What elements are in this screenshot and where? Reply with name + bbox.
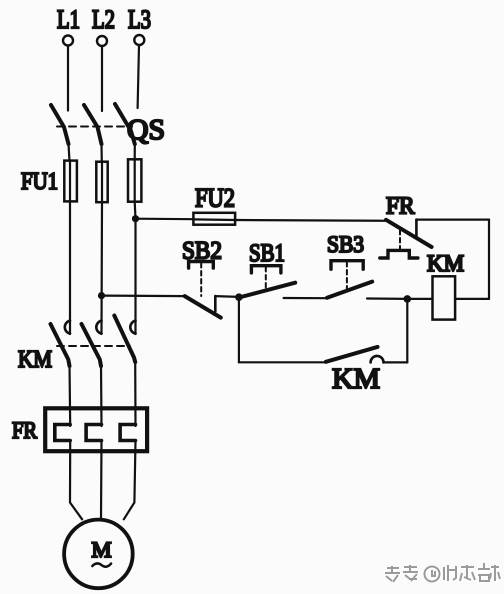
node A junction dot (L3 tap) bbox=[132, 215, 139, 222]
pushbutton SB1 cap bbox=[251, 266, 281, 273]
svg-text:KM: KM bbox=[427, 251, 464, 276]
wire QS1 to FU1a bbox=[69, 144, 70, 161]
switch QS pole 3 blade bbox=[115, 104, 135, 144]
wire FU1c to node A bbox=[134, 202, 137, 219]
wire FU1b to KM contact 2 bbox=[100, 202, 103, 334]
svg-text:KM: KM bbox=[332, 363, 380, 395]
motor M circle bbox=[64, 520, 133, 589]
svg-text:FR: FR bbox=[12, 418, 38, 443]
svg-text:SB1: SB1 bbox=[249, 240, 285, 267]
wire SB1 to SB3 bbox=[284, 297, 328, 299]
wire KM3 to FR heater 3 bbox=[134, 361, 137, 427]
FR heater element 3 bbox=[120, 425, 135, 441]
wire FR1 to motor bbox=[70, 441, 82, 520]
pushbutton SB3 (NO) blade bbox=[327, 282, 372, 298]
SB3 dashed actuator link bbox=[346, 262, 348, 290]
FR contact dashed actuator link bbox=[399, 230, 401, 249]
wire node B to SB2 bbox=[102, 295, 185, 298]
wire FR2 to motor bbox=[100, 441, 103, 520]
SB2 dashed actuator link bbox=[200, 263, 202, 296]
relay contact FR (NC) blade bbox=[386, 220, 432, 247]
wire right rail to KM coil bbox=[455, 298, 489, 300]
KM linkage dashed line bbox=[57, 345, 130, 347]
wire SB2 to node D bbox=[215, 295, 239, 298]
svg-text:FU2: FU2 bbox=[195, 184, 235, 213]
wire FU1a to KM contact 1 bbox=[69, 201, 71, 334]
FR contact right post bbox=[415, 220, 418, 236]
fuse FU2 bbox=[193, 213, 235, 225]
svg-text:L1: L1 bbox=[57, 5, 80, 34]
wire self-hold branch bottom bbox=[239, 361, 326, 363]
wire L2 to QS bbox=[101, 46, 103, 111]
contactor KM main contact 2 (arc + blade) bbox=[82, 321, 102, 366]
wire L3 to QS bbox=[138, 45, 139, 108]
watermark bbox=[385, 563, 501, 583]
wire KM2 to FR heater 2 bbox=[100, 364, 103, 427]
wire right rail (vertical) bbox=[488, 220, 490, 299]
wire L1 to QS bbox=[67, 46, 69, 111]
svg-text:FU1: FU1 bbox=[21, 169, 58, 195]
fuse FU1 pole 2 bbox=[96, 162, 107, 203]
svg-text:L2: L2 bbox=[92, 5, 115, 34]
SB1 dashed actuator link bbox=[265, 267, 267, 290]
wire node A to KM contact 3 bbox=[134, 219, 136, 334]
svg-text:M: M bbox=[92, 537, 112, 562]
pushbutton SB2 (NC) blade bbox=[185, 296, 221, 318]
contactor KM auxiliary contact blade bbox=[326, 347, 378, 362]
wire QS2 to FU1b bbox=[100, 144, 103, 162]
svg-text:KM: KM bbox=[18, 347, 52, 373]
contactor KM main contact 3 (arc + blade) bbox=[114, 316, 135, 363]
wire node A to FU2 bbox=[136, 218, 194, 221]
terminal L1 bbox=[63, 36, 73, 46]
svg-text:FR: FR bbox=[386, 194, 415, 220]
wire FR3 to motor bbox=[124, 441, 136, 520]
node B junction dot (L2 tap) bbox=[98, 292, 105, 299]
switch QS pole 2 blade bbox=[84, 105, 102, 144]
wire self-hold branch right (up to node C) bbox=[406, 299, 408, 363]
FR heater element 1 bbox=[55, 425, 70, 441]
QS linkage dashed line bbox=[57, 126, 132, 128]
wire KM aux to right bbox=[384, 361, 408, 363]
node C junction dot bbox=[404, 295, 412, 303]
KM auxiliary fixed contact arc bbox=[371, 356, 384, 362]
pushbutton SB2 cap bbox=[189, 262, 214, 269]
wire KM1 to FR heater 1 bbox=[68, 364, 71, 427]
motor tilde ~ bbox=[92, 563, 111, 566]
wire FU2 to FR contact bbox=[235, 219, 386, 222]
svg-text:L3: L3 bbox=[128, 5, 151, 34]
wire node D down (self-hold branch left) bbox=[238, 297, 240, 362]
wire QS3 to FU1c bbox=[134, 144, 136, 160]
pushbutton SB3 cap bbox=[331, 261, 363, 270]
coil KM bbox=[433, 276, 456, 319]
contactor KM main contact 1 (arc + blade) bbox=[51, 321, 71, 366]
wire FR to right rail (top) bbox=[416, 219, 489, 221]
terminal L2 bbox=[97, 36, 107, 46]
FR heater element 2 bbox=[86, 425, 101, 441]
node D junction dot bbox=[235, 293, 243, 301]
pushbutton SB1 (NO) blade bbox=[239, 283, 295, 298]
fuse FU1 pole 3 bbox=[128, 159, 141, 201]
wire coil to node C bbox=[407, 298, 432, 300]
terminal L3 bbox=[134, 35, 144, 45]
wire SB3 to node C bbox=[367, 297, 407, 300]
fuse FU1 pole 1 bbox=[64, 161, 77, 202]
SB2 right post bbox=[214, 296, 217, 311]
svg-text:SB3: SB3 bbox=[327, 232, 364, 257]
thermal relay FR box bbox=[45, 408, 147, 451]
FR thermal-release symbol bbox=[380, 250, 418, 258]
switch QS pole 1 blade bbox=[51, 105, 69, 144]
svg-text:QS: QS bbox=[127, 115, 165, 146]
